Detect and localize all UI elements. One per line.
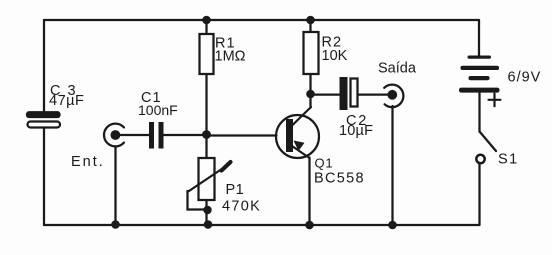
wire Q1 collector to node B bbox=[309, 94, 311, 108]
wire Saida ground tail bbox=[391, 106, 393, 225]
transistor Q1 emitter arrowhead bbox=[294, 141, 305, 152]
svg-text:100nF: 100nF bbox=[138, 102, 178, 118]
svg-text:10µF: 10µF bbox=[339, 123, 373, 139]
capacitor C1 left plate bbox=[149, 122, 154, 149]
transistor Q1 base bar bbox=[286, 119, 293, 152]
svg-text:6/9V: 6/9V bbox=[508, 70, 542, 86]
node A junction dot bbox=[202, 130, 211, 139]
svg-text:Saída: Saída bbox=[378, 61, 417, 77]
wire top rail right corner to battery bbox=[478, 20, 480, 56]
wire top rail bbox=[44, 19, 479, 21]
svg-text:47µF: 47µF bbox=[49, 93, 84, 109]
battery B1 plate 4 (long bottom) bbox=[459, 88, 500, 93]
potentiometer P1 body bbox=[199, 158, 215, 200]
transistor Q1 emitter stroke bbox=[292, 146, 310, 158]
junction dot Ent. on bottom rail bbox=[111, 220, 120, 229]
junction dot Q1 emitter on bottom rail bbox=[305, 221, 314, 230]
svg-text:1MΩ: 1MΩ bbox=[215, 49, 246, 65]
node B junction dot bbox=[306, 90, 315, 99]
svg-text:Q1: Q1 bbox=[315, 156, 334, 171]
capacitor C1 right plate bbox=[159, 122, 164, 149]
switch S1 blade bbox=[480, 132, 497, 152]
junction dot P1 wiper bbox=[203, 206, 211, 214]
wire Ent. ground tail bbox=[114, 147, 116, 226]
wire bottom rail bbox=[44, 224, 479, 226]
wire node A to Q1 base bbox=[207, 134, 277, 136]
wire switch S1 to bottom rail bbox=[478, 163, 480, 225]
connector Saida (output jack) bbox=[384, 85, 403, 108]
wire R2 top lead bbox=[309, 20, 311, 32]
wire R1 bottom lead to node A bbox=[205, 74, 207, 135]
battery plus sign bbox=[489, 94, 501, 107]
battery B1 plate 2 (long) bbox=[461, 66, 500, 70]
wire P1 bottom lead bbox=[205, 200, 207, 225]
wire left side (C3 to bottom rail) bbox=[43, 128, 45, 226]
transistor Q1 circle bbox=[276, 115, 319, 158]
battery B1 plate 1 (short top) bbox=[468, 56, 492, 59]
wire battery to switch S1 bbox=[478, 92, 480, 131]
wire C1 to node A bbox=[164, 134, 207, 136]
capacitor C2 right plate bbox=[351, 79, 358, 107]
battery B1 plate 3 (short) bbox=[469, 76, 490, 80]
svg-text:10K: 10K bbox=[322, 48, 348, 64]
switch S1 contact circle bbox=[476, 155, 484, 163]
wire left side (top rail to C3) bbox=[43, 20, 45, 113]
wire P1 wiper to bottom lead bbox=[188, 191, 207, 210]
svg-text:Ent.: Ent. bbox=[71, 154, 105, 170]
svg-text:P1: P1 bbox=[226, 182, 245, 198]
transistor Q1 collector stroke bbox=[292, 107, 311, 126]
potentiometer P1 wiper arrow bbox=[188, 167, 226, 193]
wire R1 top lead bbox=[205, 20, 207, 34]
connector Ent. (input jack) bbox=[104, 124, 124, 147]
svg-text:470K: 470K bbox=[222, 199, 261, 215]
wire Q1 emitter to bottom rail bbox=[308, 158, 310, 226]
wire node A to P1 bbox=[205, 135, 207, 158]
junction dot Saida on bottom rail bbox=[388, 221, 397, 230]
capacitor C3 bottom plate bbox=[28, 122, 61, 128]
resistor R2 bbox=[304, 32, 319, 74]
junction dot top rail at R1 bbox=[202, 16, 211, 25]
wire Ent. to C1 bbox=[121, 134, 150, 136]
svg-text:S1: S1 bbox=[498, 152, 519, 168]
junction dot P1 on bottom rail bbox=[204, 220, 213, 229]
wire C2 to Saida jack bbox=[358, 93, 390, 95]
wire node B to C2 bbox=[311, 93, 340, 95]
wire R2 bottom lead to node B bbox=[309, 74, 311, 94]
junction dot top rail at R2 bbox=[306, 16, 315, 25]
capacitor C2 left plate bbox=[340, 77, 348, 110]
svg-text:BC558: BC558 bbox=[314, 171, 365, 187]
resistor R1 bbox=[200, 34, 214, 74]
capacitor C3 top plate bbox=[27, 112, 60, 117]
